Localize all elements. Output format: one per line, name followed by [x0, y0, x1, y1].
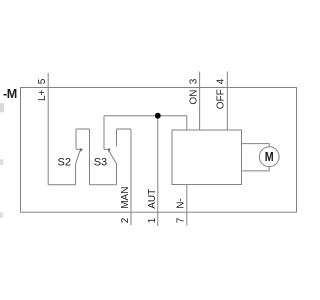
wire motor top: [242, 144, 270, 147]
wire S3 staple top: [117, 128, 132, 130]
svg-text:1: 1: [147, 217, 158, 223]
wire L+ vertical: [47, 73, 49, 185]
wire S2 staple top: [76, 128, 90, 130]
svg-text:S3: S3: [94, 156, 107, 168]
junction node dot: [155, 113, 161, 119]
svg-text:OFF: OFF: [216, 89, 227, 109]
svg-text:AUT: AUT: [147, 189, 158, 209]
svg-text:L+: L+: [37, 89, 48, 101]
wire S2 staple right leg: [89, 129, 91, 185]
wire bottom horizontal S2 to S3: [90, 184, 117, 186]
contact blob S2: [80, 149, 83, 152]
wire bottom horizontal L+ to S2: [48, 184, 75, 186]
paper smudge bottom: [0, 212, 3, 218]
svg-text:-M: -M: [3, 87, 17, 101]
svg-text:4: 4: [216, 78, 227, 84]
wire S2 lower terminal: [75, 164, 77, 185]
svg-text:MAN: MAN: [120, 187, 131, 209]
wire S3 left terminal: [103, 116, 105, 150]
wire AUT terminal 1: [157, 116, 159, 226]
enclosure box -M: [21, 88, 297, 213]
switch S2 fixed contact tick: [76, 148, 82, 150]
wire node A horizontal: [104, 115, 187, 117]
wire motor bottom: [242, 167, 270, 171]
svg-text:ON: ON: [189, 90, 200, 105]
wire OFF terminal 4: [226, 72, 228, 131]
motor M1 circle: [259, 147, 279, 167]
paper smudge middle: [0, 159, 4, 165]
wire S3 upper fixed contact: [116, 129, 118, 146]
block U1 contactor body: [172, 130, 242, 185]
svg-text:5: 5: [37, 78, 48, 84]
wire ON terminal 3: [199, 72, 201, 131]
switch S2 blade: [76, 150, 81, 164]
svg-text:2: 2: [120, 217, 131, 223]
svg-text:S2: S2: [58, 156, 71, 168]
wire MAN terminal 2: [130, 129, 132, 225]
svg-text:M: M: [265, 150, 274, 164]
switch S3 blade: [108, 150, 116, 164]
contact blob S3: [108, 149, 111, 152]
paper smudge top: [0, 103, 4, 113]
svg-text:3: 3: [189, 78, 200, 84]
wire N- terminal 7: [186, 185, 188, 226]
wire into block top: [186, 116, 188, 130]
wire S2 upper terminal: [75, 129, 77, 149]
wire S3 lower terminal: [116, 164, 118, 185]
svg-text:N-: N-: [175, 198, 186, 209]
switch S3 fixed contact tick: [104, 148, 110, 150]
svg-text:7: 7: [175, 217, 186, 223]
